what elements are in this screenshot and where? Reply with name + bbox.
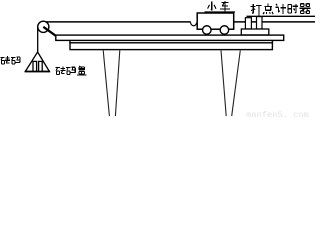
- svg-text:manfen5. com: manfen5. com: [246, 110, 309, 119]
